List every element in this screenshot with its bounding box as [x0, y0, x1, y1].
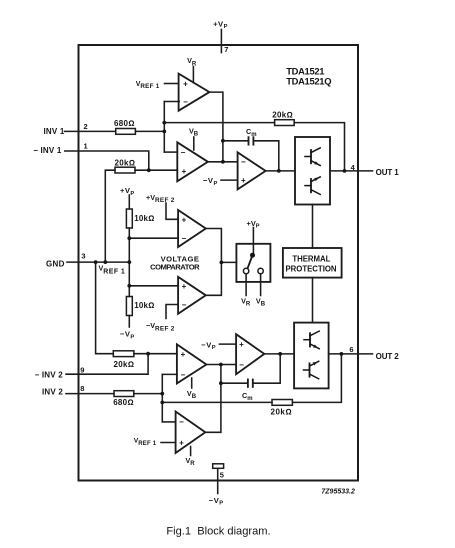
power output block 1	[295, 137, 330, 205]
svg-text:− INV 1: − INV 1	[33, 146, 62, 155]
op-amp V_R2 triangle	[176, 412, 206, 454]
wire driver1 output to power block 1	[266, 170, 295, 172]
resistor 20k ohm input (channel 1)	[115, 167, 135, 173]
svg-text:GND: GND	[46, 260, 65, 269]
wire GND / V_REF1 line	[67, 261, 129, 263]
svg-text:INV 2: INV 2	[42, 388, 63, 397]
wire -Vp to driver1 + input	[221, 179, 238, 181]
wire V_B2 output to driver2	[206, 364, 236, 366]
resistor 10k ohm lower	[126, 297, 132, 316]
transistor Q1 (block1 upper)	[305, 148, 320, 166]
svg-text:PROTECTION: PROTECTION	[285, 264, 336, 273]
wire 20k feedback line (channel 1)	[164, 122, 274, 124]
svg-text:1: 1	[84, 142, 88, 151]
svg-text:−: −	[183, 97, 188, 106]
wire V_B2 label callout	[191, 378, 193, 388]
svg-text:+: +	[239, 340, 244, 349]
wire thermal protection to block2	[312, 278, 314, 323]
op-amp V_B1 triangle	[177, 142, 208, 181]
wire V_R2 minus stub	[162, 421, 175, 423]
svg-text:− INV 2: − INV 2	[35, 371, 64, 380]
svg-text:−: −	[182, 234, 187, 243]
svg-text:3: 3	[81, 252, 85, 261]
wire inverting node vertical (channel 2)	[161, 374, 163, 422]
wire 10k upper to V_REF1 node	[128, 228, 130, 297]
op-amp polarity signs	[179, 80, 246, 448]
wire V_R label callout	[192, 67, 194, 83]
transistor Q2 (block1 lower)	[305, 177, 320, 195]
wire 680 ohm to inverting node	[135, 130, 164, 132]
resistor 20k ohm feedback (channel 2)	[272, 400, 292, 406]
pin 5 wire (-Vp supply)	[217, 468, 219, 493]
resistor 10k ohm upper	[126, 209, 132, 228]
switch pole dot	[250, 253, 255, 258]
svg-text:20kΩ: 20kΩ	[271, 407, 293, 416]
wire -INV1 horizontal	[65, 151, 149, 170]
svg-text:6: 6	[349, 345, 353, 354]
wire V_B1 output to driver1	[208, 161, 238, 163]
pin 7 wire (+Vp supply)	[220, 30, 222, 53]
svg-text:7: 7	[224, 45, 228, 54]
svg-text:−: −	[239, 360, 244, 369]
wire 20k input line left elbow	[105, 170, 115, 262]
svg-text:7Z95533.2: 7Z95533.2	[321, 489, 355, 496]
svg-text:9: 9	[80, 366, 84, 375]
resistor 20k ohm input (channel 2)	[113, 351, 134, 357]
op-amp V_B2 triangle	[177, 344, 207, 383]
svg-text:−: −	[182, 300, 187, 309]
svg-text:−: −	[179, 418, 184, 427]
wire -Vp to driver2 + input	[220, 343, 237, 345]
svg-text:10kΩ: 10kΩ	[134, 214, 154, 223]
wire INV1 to 680 ohm	[65, 130, 116, 132]
pin 5 tick pad	[213, 464, 224, 469]
svg-text:+: +	[241, 176, 246, 185]
svg-text:THERMAL: THERMAL	[292, 255, 330, 264]
wire 20k to V_B2 + input	[134, 353, 177, 355]
wire V_R1 minus stub	[164, 101, 179, 103]
svg-text:TDA1521Q: TDA1521Q	[286, 76, 331, 87]
switch box	[236, 244, 270, 282]
svg-text:+: +	[181, 350, 186, 359]
wire Cm line (channel 1)	[223, 140, 248, 142]
wire V_REF1 to V_R1 + input	[165, 83, 179, 85]
comparator upper triangle	[178, 210, 206, 247]
wire 680 ohm to inverting node (channel 2)	[134, 393, 163, 395]
switch contact V_B	[258, 268, 263, 273]
wire Cm2 to driver2 output	[253, 354, 280, 383]
svg-text:5: 5	[220, 471, 224, 480]
resistor 680 ohm (channel 1)	[116, 129, 136, 135]
wire -INV2 up to 20k line	[66, 354, 148, 375]
wire inverting node vertical (channel 1)	[163, 102, 165, 153]
svg-text:+: +	[179, 438, 184, 447]
capacitor Cm (channel 2)	[247, 380, 249, 387]
wire V_REF1 to V_R2 + input	[161, 442, 176, 444]
wire Cm line (channel 2)	[221, 382, 248, 384]
svg-text:20kΩ: 20kΩ	[115, 158, 136, 167]
svg-text:680Ω: 680Ω	[114, 119, 135, 128]
transistor Q4 (block2 lower)	[304, 361, 319, 379]
svg-text:8: 8	[80, 384, 84, 393]
svg-text:COMPARATOR: COMPARATOR	[150, 263, 200, 272]
capacitor Cm (channel 1)	[248, 137, 250, 144]
switch lever	[248, 255, 253, 268]
svg-text:OUT 2: OUT 2	[376, 352, 400, 361]
svg-text:10kΩ: 10kΩ	[134, 301, 154, 310]
wire comparator outputs join	[206, 229, 222, 296]
wire 20k to V_B1 + input	[135, 169, 177, 171]
power output block 2	[294, 323, 329, 389]
switch contact V_R	[243, 268, 248, 273]
wire V_REF1 to 20k input (channel 2)	[96, 262, 114, 354]
wire V_R2 label callout	[190, 447, 192, 456]
wire switch V_B lead	[260, 274, 262, 296]
svg-text:+: +	[182, 167, 187, 176]
svg-text:−: −	[181, 370, 186, 379]
wire +Vp to switch pole	[252, 228, 254, 256]
wire Cm to driver1 output	[254, 141, 279, 171]
wire switch V_R lead	[245, 274, 247, 296]
op-amp driver2 triangle	[236, 334, 264, 374]
transistor Q3 (block2 upper)	[304, 331, 319, 349]
wire 20k feedback line (channel 2)	[162, 401, 272, 403]
wire OUT2 line	[329, 353, 373, 355]
IC outer border	[79, 45, 359, 481]
wire to upper comparator - input	[129, 237, 178, 239]
comparator lower triangle	[178, 277, 206, 314]
wire V_B2 minus stub	[162, 373, 177, 375]
wire V_R2 output up to node	[205, 365, 221, 433]
wire block1 to thermal protection	[312, 205, 314, 249]
wire driver2 output to power block 2	[264, 353, 294, 355]
svg-text:−: −	[241, 157, 246, 166]
wire 10k lower to -Vp	[128, 316, 130, 328]
svg-text:−: −	[181, 148, 186, 157]
svg-text:+: +	[182, 282, 187, 291]
svg-text:Fig.1 Block diagram.: Fig.1 Block diagram.	[166, 526, 270, 538]
wire +V_REF2 to upper comparator + input	[166, 203, 178, 219]
svg-text:INV 1: INV 1	[44, 127, 65, 136]
wire to lower comparator + input	[129, 285, 178, 287]
wire INV2 to 680 ohm	[66, 393, 114, 395]
wire V_R1 output	[209, 92, 223, 162]
wire -V_REF2 to lower comparator - input	[166, 305, 178, 319]
wire +Vp to 10k upper	[128, 195, 130, 209]
wire 20k feedback to OUT2 node	[292, 354, 341, 403]
svg-text:+: +	[183, 80, 188, 89]
op-amp driver1 triangle	[238, 152, 266, 189]
wire comparator to switch box	[221, 261, 236, 263]
resistor 20k ohm feedback (channel 1)	[275, 120, 295, 126]
wire 20k feedback to OUT1 node	[294, 123, 344, 171]
svg-text:2: 2	[84, 122, 88, 131]
svg-text:20kΩ: 20kΩ	[114, 360, 135, 369]
wire OUT1 line	[330, 170, 373, 172]
svg-text:+: +	[182, 215, 187, 224]
svg-text:680Ω: 680Ω	[113, 398, 134, 407]
op-amp V_R1 triangle	[179, 74, 210, 111]
wire V_B1 minus stub	[164, 151, 177, 153]
svg-text:20kΩ: 20kΩ	[272, 110, 293, 119]
thermal protection box	[283, 248, 342, 278]
svg-text:OUT 1: OUT 1	[376, 168, 400, 177]
wire V_B label callout	[193, 137, 195, 150]
resistor 680 ohm (channel 2)	[114, 391, 134, 397]
